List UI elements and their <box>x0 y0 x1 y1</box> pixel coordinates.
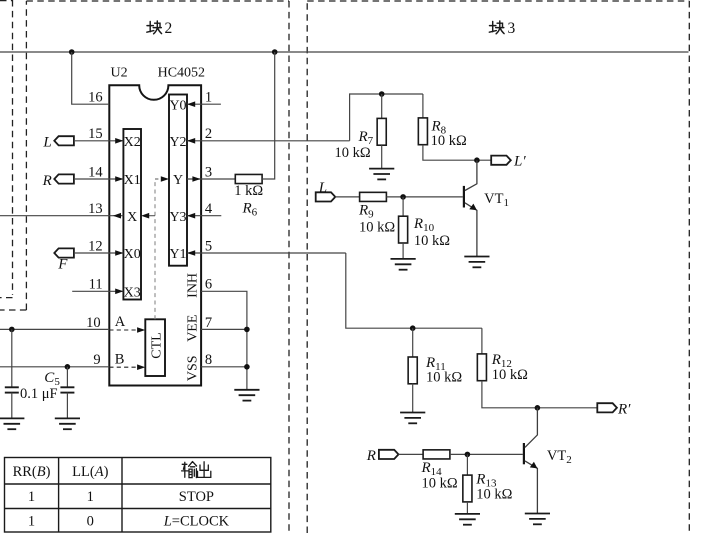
wire pin 2 Y2 output to block3 <box>187 140 350 142</box>
wire R7 to ground <box>381 145 383 168</box>
wire node to R8 <box>422 94 424 118</box>
wire R10 to ground <box>402 243 404 259</box>
svg-text:F: F <box>57 257 68 273</box>
svg-text:10 kΩ: 10 kΩ <box>426 369 462 385</box>
resistor R6 1k <box>235 174 262 183</box>
ground pins 6/7/8 <box>234 390 259 401</box>
wire pin 5 Y1 output to block3 <box>187 252 346 254</box>
junction pin8 <box>244 364 250 370</box>
svg-text:X2: X2 <box>124 135 141 150</box>
wire pin 3 Y common <box>187 178 235 180</box>
svg-text:10 kΩ: 10 kΩ <box>422 475 458 491</box>
svg-text:14: 14 <box>88 164 103 180</box>
svg-text:1: 1 <box>28 513 35 529</box>
wire node to R10 <box>402 197 404 216</box>
junction pin10 / C4 <box>9 327 15 333</box>
svg-text:2: 2 <box>205 126 212 142</box>
svg-text:Y2: Y2 <box>169 135 186 150</box>
svg-text:2: 2 <box>165 20 173 37</box>
svg-text:1: 1 <box>28 489 35 505</box>
svg-text:HC4052: HC4052 <box>158 65 205 80</box>
svg-text:VSS: VSS <box>185 355 200 381</box>
svg-text:R: R <box>366 448 376 464</box>
wire L to R9 <box>335 196 359 198</box>
svg-text:1 kΩ: 1 kΩ <box>234 183 263 199</box>
wire F to X0 <box>74 252 124 254</box>
svg-text:8: 8 <box>205 352 212 368</box>
dashed CTL control line <box>154 179 156 319</box>
svg-text:0: 0 <box>87 513 94 529</box>
dashed select line B to CTL <box>109 366 138 368</box>
ground R13 <box>455 514 480 525</box>
label 块3 (hand-drawn CJK) <box>489 21 504 34</box>
channel labels inside Y box <box>169 98 186 262</box>
svg-text:1: 1 <box>205 90 212 106</box>
resistor R11 <box>408 357 417 384</box>
terminal R input <box>379 450 399 459</box>
table header 输出 (hand-drawn CJK) <box>182 462 211 478</box>
svg-text:15: 15 <box>88 126 103 142</box>
svg-text:L=CLOCK: L=CLOCK <box>163 513 230 529</box>
truth table grid <box>5 458 271 533</box>
junction top rail to R6 <box>272 49 278 55</box>
svg-text:INH: INH <box>185 273 200 298</box>
branch to X with arrow <box>149 215 155 217</box>
svg-text:12: 12 <box>88 238 103 254</box>
wire R11 to ground <box>412 383 414 412</box>
wire node to R13 <box>466 454 468 475</box>
terminal R (pin 14) <box>54 174 74 183</box>
junction top rail to pin16 <box>69 49 75 55</box>
wire pin 8 VSS <box>201 366 247 368</box>
IC inner X-channel box <box>123 129 141 300</box>
svg-text:Y3: Y3 <box>169 210 186 225</box>
block2 dashed border 块2 <box>0 1 289 533</box>
capacitor C4 (unlabeled) <box>5 329 19 418</box>
wire pin 10 A input <box>0 328 109 330</box>
svg-text:10 kΩ: 10 kΩ <box>335 145 371 161</box>
dashed branch to Y with arrow <box>155 178 162 180</box>
wire pin16 from VCC rail <box>72 52 110 104</box>
wire R6 to VCC rail <box>262 52 275 179</box>
svg-text:6: 6 <box>205 277 212 293</box>
svg-text:7: 7 <box>205 315 212 331</box>
svg-text:16: 16 <box>88 90 103 106</box>
svg-text:A: A <box>115 314 126 330</box>
channel labels inside X box <box>124 135 141 301</box>
IC U2 outline with notch <box>109 85 201 385</box>
wire node to R7 <box>381 94 383 118</box>
svg-text:5: 5 <box>205 238 212 254</box>
svg-text:X0: X0 <box>124 247 141 262</box>
svg-text:Y: Y <box>173 173 183 188</box>
ground R10 <box>391 259 416 270</box>
ground below C4 <box>0 418 24 429</box>
svg-text:13: 13 <box>88 201 103 217</box>
svg-text:3: 3 <box>508 20 516 37</box>
junction node R11 <box>410 325 416 331</box>
ground below C5 <box>55 418 80 429</box>
svg-text:Y0: Y0 <box>169 98 186 113</box>
svg-text:0.1 μF: 0.1 μF <box>20 386 58 402</box>
svg-text:10: 10 <box>86 315 101 331</box>
svg-text:L: L <box>318 180 327 196</box>
junction R' node <box>535 405 541 411</box>
resistor R13 <box>463 475 472 502</box>
wire R9 to VT1 base <box>386 196 462 198</box>
wire pin 4 stub <box>187 215 221 217</box>
svg-text:1: 1 <box>87 489 94 505</box>
wire R to X1 <box>74 178 124 180</box>
svg-text:LL(A): LL(A) <box>72 464 108 480</box>
pin numbers right side <box>205 90 213 369</box>
CTL box <box>145 319 165 376</box>
svg-text:R′: R′ <box>617 401 631 417</box>
svg-text:CTL: CTL <box>150 332 165 358</box>
svg-text:11: 11 <box>89 277 103 293</box>
svg-text:STOP: STOP <box>179 489 214 505</box>
svg-text:L′: L′ <box>513 154 526 170</box>
svg-text:B: B <box>115 351 125 367</box>
wire node to R12 <box>481 328 483 354</box>
junction pin9 / C5 <box>65 364 71 370</box>
svg-text:X3: X3 <box>124 286 141 301</box>
IC inner Y-channel box <box>169 95 187 266</box>
svg-text:Y1: Y1 <box>169 247 186 262</box>
wire node to R11 <box>412 328 414 357</box>
wire Y1 riser to R11/R12 node <box>346 253 482 328</box>
svg-text:RR(B): RR(B) <box>13 464 51 480</box>
resistor R9 <box>360 192 387 201</box>
svg-text:VEE: VEE <box>185 315 200 342</box>
terminal L input <box>316 192 336 201</box>
resistor R12 <box>477 354 486 381</box>
wire L to X2 <box>74 140 124 142</box>
svg-text:10 kΩ: 10 kΩ <box>414 233 450 249</box>
svg-text:R: R <box>42 173 52 189</box>
svg-text:L: L <box>42 135 51 151</box>
wire R8 to L' node <box>423 145 491 161</box>
resistor R8 <box>418 118 427 145</box>
wire R14 to VT2 base <box>450 453 523 455</box>
resistor R7 <box>377 118 386 145</box>
junction R10 node <box>400 194 406 200</box>
svg-text:4: 4 <box>205 201 213 217</box>
ground VT1 emitter <box>464 257 489 268</box>
wire pin 9 B input <box>0 366 109 368</box>
svg-text:9: 9 <box>93 352 100 368</box>
wire pin 1 stub <box>187 103 221 105</box>
label 块2 (hand-drawn CJK) <box>147 21 162 34</box>
wire Y2 riser to R7/R8 node <box>350 94 423 141</box>
wire R13 to ground <box>466 502 468 514</box>
svg-text:X1: X1 <box>124 173 141 188</box>
svg-text:10 kΩ: 10 kΩ <box>359 219 395 235</box>
block1 dashed border (right edge of 块1) <box>0 0 13 298</box>
ground R11 <box>400 413 425 424</box>
capacitor C5 <box>60 367 74 419</box>
svg-text:10 kΩ: 10 kΩ <box>492 367 528 383</box>
wire VCC top rail <box>0 51 689 53</box>
svg-text:3: 3 <box>205 164 212 180</box>
transistor VT2 <box>524 408 538 514</box>
wire pin 6 INH <box>201 291 247 390</box>
terminal R' <box>597 403 617 412</box>
wire stub pin 11 to X3 <box>72 290 123 292</box>
terminal L' <box>491 156 511 165</box>
dashed select line A to CTL <box>109 329 138 331</box>
resistor R14 <box>423 450 450 459</box>
ground R7 <box>369 169 394 180</box>
wire R to R14 <box>399 453 424 455</box>
wire pin 7 VEE <box>201 328 247 330</box>
terminal L (pin 15) <box>54 136 74 145</box>
svg-text:U2: U2 <box>111 65 128 80</box>
svg-text:X: X <box>127 210 137 225</box>
junction L' node <box>474 157 480 163</box>
wire R12 to R' node <box>482 381 597 408</box>
junction R13 node <box>465 452 471 458</box>
ground VT2 emitter <box>525 514 550 525</box>
pin numbers left side <box>86 90 103 369</box>
junction node R7 <box>379 91 385 97</box>
svg-text:10 kΩ: 10 kΩ <box>431 133 467 149</box>
wire X common (pin 13) <box>0 215 123 217</box>
resistor R10 <box>399 216 408 243</box>
junction pin7 <box>244 327 250 333</box>
terminal F (pin 12) <box>54 248 74 257</box>
svg-text:10 kΩ: 10 kΩ <box>476 486 512 502</box>
transistor VT1 <box>464 160 477 256</box>
block3 dashed border 块3 <box>307 1 689 533</box>
